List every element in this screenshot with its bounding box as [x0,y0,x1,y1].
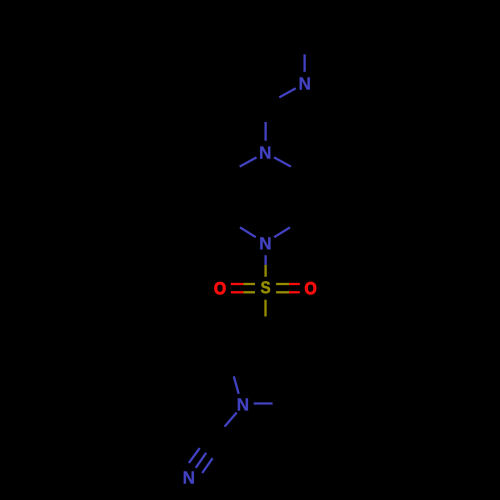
double bond S=O left, line1 O half [231,283,244,285]
bond N1(pyrrolidine)-C5, N half [254,402,273,404]
bond CH2-N1(piperazine), N half [264,122,266,141]
triple bond C#N line1, N half [189,448,200,463]
double bond S=O left, line2 S half [243,291,255,293]
double bond S=O right, line1 S half [276,283,289,285]
atom label N4 (piperazine bottom) [260,237,270,249]
triple bond C#N line3, N half [202,458,212,473]
bond C2-N1(pyrrolidine), N half [234,376,239,394]
double bond S=O right, line2 S half [276,291,289,293]
bond CH3-N(amine), N half [303,54,305,72]
bond N1(piperazine)-C2, N half [240,157,257,166]
atom label N (methylamine) [300,77,310,89]
atom label O (right) [305,282,316,294]
bond C5-N4(piperazine), N half [274,227,290,237]
bond S-C3(pyrrolidine), S half [264,300,266,317]
bond C3-N4(piperazine), N half [240,227,256,237]
double bond S=O left, line1 S half [243,283,255,285]
atom label O (left) [215,282,226,294]
double bond S=O left, line2 O half [231,291,244,293]
atom label N1 (pyrrolidine) [238,398,248,410]
double bond S=O right, line2 O half [289,291,300,293]
bond N4(piperazine)-S, S half [264,265,266,277]
triple bond C#N line2, N half [196,453,207,468]
bond N1(piperazine)-C6, N half [274,157,291,166]
atom label N (nitrile) [184,471,194,483]
atom label N1 (piperazine top) [260,146,270,158]
bond N4(piperazine)-S, N half [264,255,266,265]
atom label S (sulfonyl) [261,281,270,293]
double bond S=O right, line1 O half [289,283,300,285]
bond N(amine)-CH2, N half [279,88,296,97]
bond N1(pyrrolidine)-C(nitrile), N half [225,413,237,427]
